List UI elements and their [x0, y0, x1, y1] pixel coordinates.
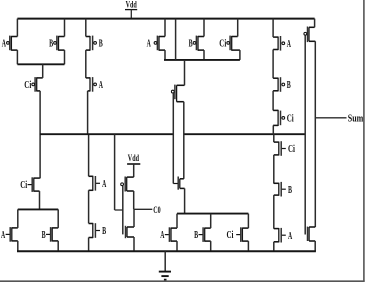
transistor Ci (PMOS, series after A||B) [24, 77, 42, 92]
ground rail [17, 250, 316, 252]
transistor A (PMOS series stack) [273, 36, 291, 51]
wire [16, 19, 18, 65]
svg-text:A: A [102, 178, 106, 190]
node Sum' bus [184, 133, 305, 135]
svg-text:Vdd: Vdd [128, 153, 139, 163]
transistor (PMOS, gate Cout') [171, 85, 184, 102]
transistor B (NMOS, A||B||Ci group) [194, 227, 211, 242]
transistor A (NMOS, A||B||Ci group) [160, 227, 177, 242]
wire [210, 214, 212, 252]
wire [39, 191, 41, 209]
svg-text:B: B [194, 229, 198, 241]
transistor Ci (PMOS series stack) [273, 110, 294, 126]
wire to Sum [315, 117, 346, 119]
svg-text:B: B [189, 38, 193, 50]
wire [176, 214, 178, 252]
ground [159, 272, 171, 280]
transistor Ci (NMOS series stack) [274, 141, 295, 156]
wire [247, 214, 249, 252]
wire [64, 19, 66, 65]
transistor A (NMOS series stack) [274, 228, 292, 243]
node n4 rail (A||B||Ci tops) [177, 213, 248, 215]
wire [272, 125, 274, 134]
transistor B (PMOS, B-A series branch) [86, 36, 103, 51]
transistor (NMOS, C0 inverter) [126, 226, 135, 238]
node n2 rail (A||B||Ci drains) [164, 59, 240, 61]
wire gate Cout' [172, 93, 174, 184]
svg-text:Vdd: Vdd [126, 0, 137, 10]
transistor A (PMOS, B-A series branch) [86, 77, 103, 92]
wire [133, 237, 135, 251]
transistor A (PMOS, A+B pair) [2, 36, 18, 51]
svg-text:B: B [287, 79, 291, 91]
wire [183, 102, 185, 179]
transistor B (NMOS, A-B series branch) [89, 223, 107, 238]
wire [184, 60, 186, 85]
svg-text:B: B [99, 38, 103, 50]
node n3 rail (A||B pair top) [18, 208, 58, 210]
svg-text:A: A [99, 79, 103, 91]
svg-text:Ci: Ci [288, 143, 295, 155]
wire Sum node [314, 41, 316, 227]
svg-text:B: B [102, 225, 106, 237]
wire [238, 19, 240, 60]
svg-text:B: B [42, 229, 46, 241]
svg-text:Ci: Ci [287, 113, 294, 125]
node Cout' bus [40, 133, 174, 135]
transistor B (PMOS series stack) [273, 77, 291, 92]
wire inverter input [304, 35, 306, 234]
svg-text:Sum: Sum [348, 113, 364, 124]
wire Cout' to inverter [115, 134, 123, 210]
wire [17, 209, 19, 251]
wire [88, 238, 90, 252]
wire inverter input [122, 186, 124, 234]
svg-text:A: A [160, 229, 164, 241]
wire [57, 209, 59, 251]
transistor Ci (NMOS, series before A||B) [20, 177, 40, 192]
transistor A (NMOS, A+B pair) [1, 227, 18, 242]
wire [39, 91, 41, 178]
svg-text:B: B [49, 38, 53, 50]
svg-text:A: A [147, 38, 151, 50]
svg-text:Ci: Ci [24, 79, 31, 91]
wire [164, 251, 166, 271]
wire [85, 19, 87, 78]
transistor B (PMOS, A+B pair) [49, 36, 64, 51]
svg-text:A: A [1, 229, 5, 241]
wire [133, 209, 135, 227]
svg-text:A: A [2, 38, 6, 50]
Vdd symbol (C0 inverter) [127, 153, 140, 177]
svg-text:A: A [288, 230, 292, 242]
wire [203, 19, 205, 60]
wire [314, 19, 316, 28]
wire [175, 19, 177, 60]
wire [314, 241, 316, 251]
wire [272, 19, 274, 79]
transistor Ci (NMOS, A||B||Ci group) [227, 227, 249, 242]
Vdd rail [17, 18, 314, 20]
transistor Ci (PMOS, A||B||Ci group) [219, 36, 240, 51]
wire [273, 242, 275, 252]
transistor (NMOS, Sum output inverter) [308, 227, 316, 241]
wire [133, 191, 135, 209]
transistor B (PMOS, A||B||Ci group) [189, 36, 204, 51]
wire [184, 188, 186, 213]
transistor (NMOS, gate Cout') [173, 177, 184, 190]
wire [273, 155, 275, 184]
svg-text:Ci: Ci [227, 229, 234, 241]
wire [273, 195, 275, 229]
transistor B (NMOS, A+B pair) [42, 227, 59, 242]
wire [164, 19, 166, 60]
transistor (PMOS, C0 inverter) [121, 177, 134, 192]
wire [42, 64, 44, 78]
node C0 [153, 205, 161, 215]
transistor A (PMOS, A||B||Ci group) [147, 36, 165, 51]
wire [273, 134, 275, 142]
svg-text:C0: C0 [153, 205, 161, 215]
wire [272, 91, 274, 111]
transistor A (NMOS, A-B series branch) [89, 176, 107, 191]
Vdd symbol (top) [125, 0, 137, 19]
wire [88, 91, 89, 176]
svg-text:B: B [288, 184, 292, 196]
node Sum [348, 113, 364, 124]
node n1 rail (A||B drains) [17, 63, 64, 65]
svg-text:Ci: Ci [20, 179, 27, 191]
transistor B (NMOS series stack) [274, 182, 293, 197]
node C0 line [134, 208, 153, 210]
svg-text:A: A [287, 38, 291, 50]
wire [88, 190, 90, 223]
svg-text:Ci: Ci [219, 38, 226, 50]
transistor (PMOS, Sum output inverter) [304, 27, 315, 43]
